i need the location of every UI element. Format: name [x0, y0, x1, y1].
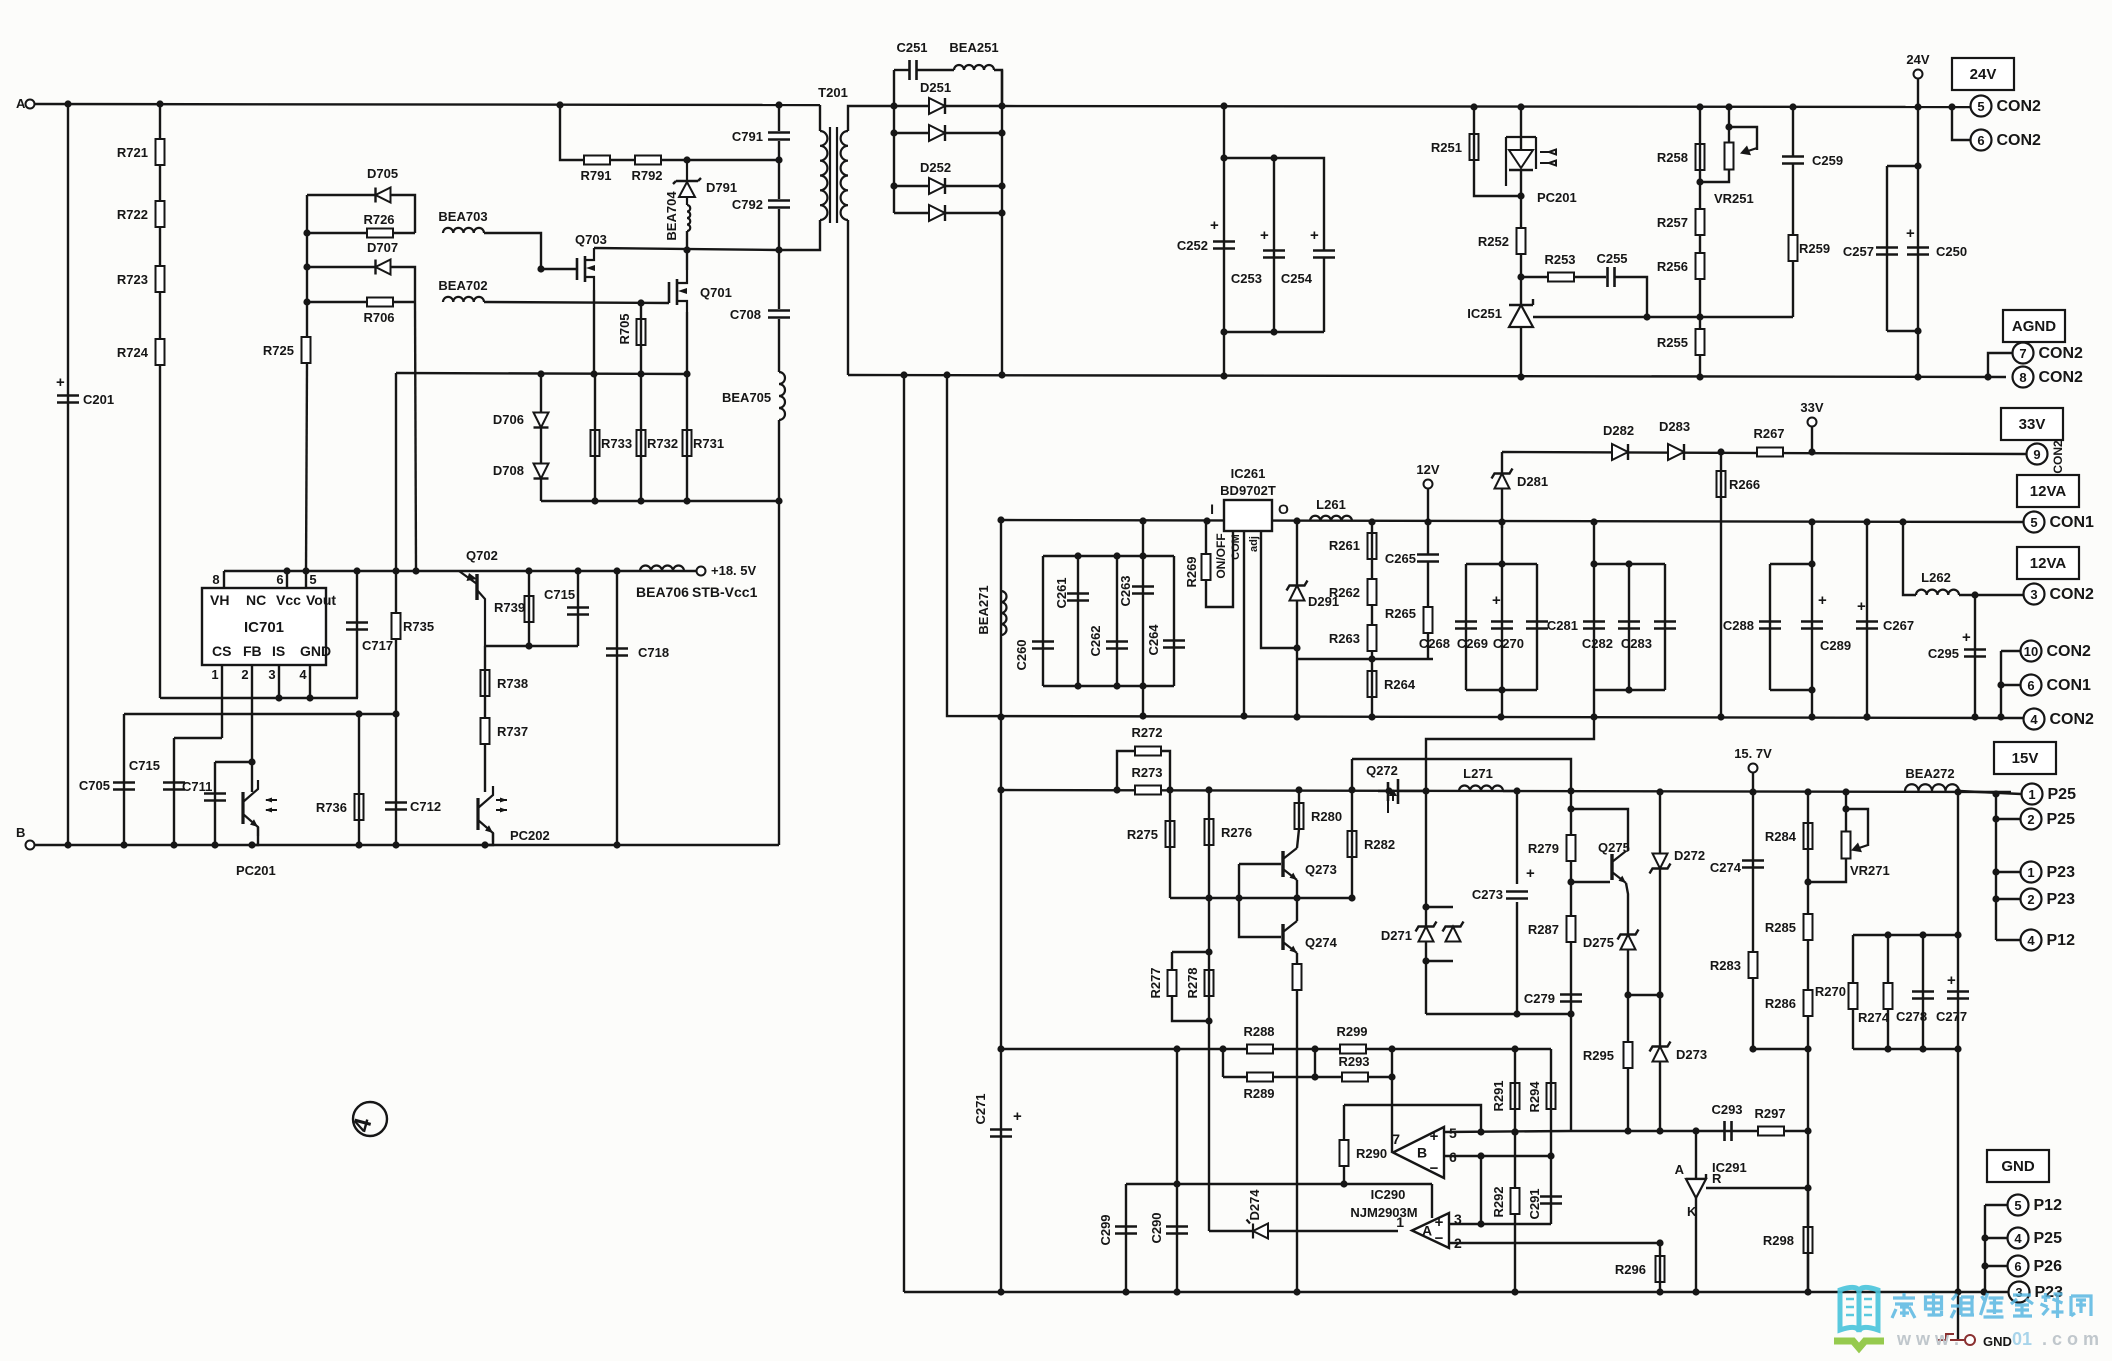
- svg-text:C718: C718: [638, 645, 669, 660]
- svg-text:R721: R721: [117, 145, 148, 160]
- wire CON1-6 stub: [2001, 684, 2020, 686]
- inductor L271: [1459, 786, 1503, 791]
- wire T201 primary bottom: [779, 220, 820, 250]
- svg-text:C717: C717: [362, 638, 393, 653]
- resistor R735: [392, 613, 401, 639]
- wire R733 vertical: [594, 374, 596, 501]
- wire COM pin: [1243, 531, 1245, 717]
- wire AGND rail: [848, 375, 2006, 377]
- wire R721 to 698: [160, 697, 162, 699]
- wire BEA703 to Q703 gate: [484, 233, 577, 269]
- wire R280 vertical: [1298, 790, 1300, 829]
- svg-text:A: A: [1422, 1223, 1432, 1239]
- wire PC202 emitter: [485, 833, 493, 845]
- resistor R251: [1470, 134, 1479, 160]
- svg-text:R297: R297: [1754, 1106, 1785, 1121]
- svg-text:6: 6: [2014, 1259, 2021, 1274]
- connector P26 pin6: [2008, 1256, 2029, 1277]
- junction dots D block left: [890, 102, 897, 109]
- capacitor C279: [1560, 995, 1582, 1002]
- diode D252 lower: [929, 205, 945, 221]
- wire D block right vertical: [1001, 70, 1003, 375]
- wire R270 vertical: [1852, 935, 1854, 1049]
- svg-text:C715: C715: [129, 758, 160, 773]
- wire pin5 loop: [1344, 1105, 1481, 1132]
- label box AGND: [2003, 310, 2065, 342]
- capacitor C299: [1115, 1227, 1137, 1234]
- capacitor C270: [1526, 622, 1548, 629]
- resistor R272: [1135, 747, 1161, 756]
- svg-text:R288: R288: [1243, 1024, 1274, 1039]
- svg-text:+: +: [1947, 972, 1956, 989]
- zener D271b: [1446, 927, 1461, 942]
- wire R706 line: [307, 301, 415, 303]
- diode D707: [376, 260, 391, 275]
- junction dots P25 branch: [1992, 815, 1999, 822]
- capacitor C264: [1163, 641, 1185, 648]
- svg-text:R723: R723: [117, 272, 148, 287]
- wire CON2-10 branch: [2001, 650, 2020, 652]
- svg-text:CON2: CON2: [1997, 132, 2042, 149]
- connector P12 pin4: [2021, 930, 2042, 951]
- wire P23-1 stub: [1996, 871, 2020, 873]
- inductor L261: [1310, 516, 1352, 521]
- svg-text:3: 3: [2015, 1285, 2022, 1300]
- wire D274 line: [1209, 1230, 1398, 1232]
- svg-text:ON/OFF: ON/OFF: [1214, 533, 1228, 578]
- connector CON2 pin5: [1971, 96, 1992, 117]
- wire C265 chain: [1427, 522, 1429, 554]
- wire P23-2 stub: [1996, 898, 2020, 900]
- svg-text:C271: C271: [973, 1093, 988, 1124]
- svg-text:R263: R263: [1329, 631, 1360, 646]
- svg-text:L262: L262: [1921, 570, 1951, 585]
- wire Q703 source: [593, 290, 595, 374]
- junction dots 659 line: [1368, 655, 1375, 662]
- wire pin6 line: [1444, 1155, 1551, 1157]
- svg-text:BEA705: BEA705: [722, 390, 771, 405]
- junction dot VR251 wiper tap: [1725, 123, 1732, 130]
- junction dot 646: [525, 642, 532, 649]
- wire R739 vertical: [528, 571, 530, 646]
- wire D271 vertical: [1425, 791, 1427, 1014]
- wire C255 corner: [1615, 277, 1647, 317]
- wire R263 line: [1297, 658, 1433, 660]
- connector P25 pin4: [2008, 1228, 2029, 1249]
- wire C257 bottom loop: [1887, 330, 1918, 332]
- svg-text:C290: C290: [1149, 1212, 1164, 1243]
- junction dot D791 top: [683, 156, 690, 163]
- svg-text:R299: R299: [1336, 1024, 1367, 1039]
- svg-text:T201: T201: [818, 85, 848, 100]
- wire CON2-6 branch: [1952, 107, 1970, 140]
- wire C715a vertical: [173, 738, 175, 845]
- wire R272 loop: [1117, 751, 1135, 790]
- connector P12 pin5: [2008, 1195, 2029, 1216]
- capacitor C715b: [567, 608, 589, 615]
- wire pin3 line: [1449, 1223, 1551, 1225]
- wire 24V rail: [1002, 106, 1970, 107]
- wire C259 chain: [1792, 107, 1794, 156]
- svg-text:C273: C273: [1472, 887, 1503, 902]
- svg-text:D273: D273: [1676, 1047, 1707, 1062]
- junction dots A rail: [64, 100, 71, 107]
- junction dot D275 bottom: [1624, 991, 1631, 998]
- wire R791 branch: [560, 105, 779, 160]
- diode D283: [1668, 444, 1684, 460]
- svg-text:3: 3: [268, 667, 275, 682]
- diode D252 upper: [929, 178, 945, 194]
- svg-text:P25: P25: [2047, 811, 2076, 828]
- svg-text:IS: IS: [272, 643, 285, 659]
- wire C261 vertical: [1077, 556, 1079, 686]
- wire C718 vertical: [616, 571, 618, 845]
- svg-text:33V: 33V: [2019, 416, 2046, 433]
- capacitor C201: [57, 396, 79, 403]
- wire 1184 corner: [1431, 1184, 1433, 1218]
- svg-text:R272: R272: [1131, 725, 1162, 740]
- wire BEA704 bottom: [686, 231, 688, 250]
- connector P23 pin2: [2021, 889, 2042, 910]
- svg-text:CON2: CON2: [2039, 369, 2084, 386]
- svg-text:VH: VH: [210, 592, 229, 608]
- svg-text:IC290: IC290: [1371, 1187, 1406, 1202]
- node page mark 4: [353, 1102, 387, 1136]
- capacitor C712: [385, 803, 407, 810]
- svg-text:CON1: CON1: [2050, 514, 2095, 531]
- wire C711 vertical: [214, 762, 216, 845]
- svg-text:GND: GND: [2001, 1158, 2035, 1175]
- junction dots d-cluster: [303, 229, 310, 236]
- svg-text:R277: R277: [1148, 967, 1163, 998]
- wire R721 chain: [159, 104, 161, 698]
- wire D707 line: [307, 267, 415, 302]
- resistor R257: [1696, 209, 1705, 235]
- wire pin8 stub: [223, 571, 225, 588]
- transistor Q703: [577, 256, 585, 282]
- capacitor C717: [346, 623, 368, 630]
- wire pin6 stub: [286, 571, 288, 588]
- wire 12V stub: [1427, 488, 1429, 522]
- svg-text:C293: C293: [1711, 1102, 1742, 1117]
- wire R261 chain: [1371, 522, 1373, 659]
- svg-text:12VA: 12VA: [2030, 555, 2067, 572]
- resistor R723: [156, 266, 165, 292]
- junction dots pin5 line: [1477, 1128, 1484, 1135]
- svg-text:R722: R722: [117, 207, 148, 222]
- wire VR271 wiper loop: [1846, 809, 1868, 846]
- capacitor C254: [1313, 251, 1335, 258]
- svg-text:BEA251: BEA251: [949, 40, 998, 55]
- svg-text:CON2: CON2: [1997, 98, 2042, 115]
- wire Q273 base: [1239, 863, 1281, 865]
- svg-text:1: 1: [2027, 865, 2034, 880]
- svg-text:PC201: PC201: [236, 863, 276, 878]
- wire block270 bottom: [1853, 1048, 1958, 1050]
- capacitor C293: [1725, 1121, 1732, 1141]
- watermark text: [1892, 1293, 1915, 1318]
- svg-text:4: 4: [2027, 933, 2035, 948]
- svg-text:D708: D708: [493, 463, 524, 478]
- svg-text:R252: R252: [1478, 234, 1509, 249]
- svg-text:4: 4: [2014, 1231, 2022, 1246]
- wire C267 vertical: [1866, 522, 1868, 717]
- svg-text:D275: D275: [1583, 935, 1614, 950]
- svg-text:R276: R276: [1221, 825, 1252, 840]
- svg-text:BEA706: BEA706: [636, 584, 689, 600]
- svg-text:R733: R733: [601, 436, 632, 451]
- svg-text:12VA: 12VA: [2030, 483, 2067, 500]
- wire pin6 to pin3: [1480, 1156, 1482, 1224]
- svg-text:D271: D271: [1381, 928, 1412, 943]
- inductor BEA272: [1905, 784, 1959, 791]
- wire BEA271 vertical: [1000, 520, 1002, 790]
- wire R731 vertical: [686, 374, 688, 501]
- junction dot C267 bottom: [1863, 713, 1870, 720]
- svg-text:R290: R290: [1356, 1146, 1387, 1161]
- svg-text:C259: C259: [1812, 153, 1843, 168]
- wire 1014 line: [1426, 1013, 1571, 1015]
- wire vcc line: [224, 570, 697, 572]
- junction dots C250: [1914, 162, 1921, 169]
- wire pin3 stub: [278, 665, 280, 698]
- svg-text:GND: GND: [300, 643, 331, 659]
- resistor R291: [1511, 1083, 1520, 1109]
- svg-text:+: +: [1210, 217, 1219, 234]
- wire C254 lower: [1323, 258, 1325, 332]
- resistor R265: [1424, 607, 1433, 633]
- svg-text:R736: R736: [316, 800, 347, 815]
- wire R277 top v: [1171, 952, 1173, 970]
- wire C278 vertical: [1922, 935, 1924, 1049]
- svg-text:Vout: Vout: [306, 592, 336, 608]
- wire pin5b line: [1571, 1130, 1808, 1132]
- wire C257 loop: [1887, 165, 1918, 167]
- inductor BEA251: [954, 65, 994, 70]
- wire R282 vertical: [1351, 759, 1353, 898]
- svg-text:R266: R266: [1729, 477, 1760, 492]
- wire C269 vertical: [1501, 522, 1503, 717]
- wire Q701 drain: [686, 250, 688, 270]
- svg-text:+: +: [1526, 865, 1535, 882]
- wire R272 loop right: [1161, 751, 1170, 790]
- junction dots 1131 line: [1624, 1127, 1631, 1134]
- svg-text:+: +: [1310, 227, 1319, 244]
- wire c281 bottom: [1594, 689, 1665, 691]
- wire IC251 anode: [1520, 327, 1522, 377]
- svg-text:R791: R791: [580, 168, 611, 183]
- svg-text:R298: R298: [1763, 1233, 1794, 1248]
- wire R738 chain: [484, 646, 486, 792]
- resistor R725: [302, 337, 311, 363]
- junction dots bottom rail: [997, 1288, 1004, 1295]
- wire gate bias line: [1352, 759, 1571, 791]
- wire mid 374 line: [396, 373, 687, 374]
- svg-text:NC: NC: [246, 592, 266, 608]
- svg-text:C278: C278: [1896, 1009, 1927, 1024]
- resistor R731: [683, 430, 692, 456]
- resistor R287: [1567, 916, 1576, 942]
- svg-text:C281: C281: [1547, 618, 1578, 633]
- wire CON2-7 branch: [1988, 353, 2012, 377]
- junction dots 374 line: [537, 370, 544, 377]
- wire pin2 line: [1449, 1242, 1660, 1244]
- wire C708 chain: [778, 250, 780, 309]
- svg-text:R284: R284: [1765, 829, 1797, 844]
- svg-text:PC201: PC201: [1537, 190, 1577, 205]
- svg-text:C295: C295: [1928, 646, 1959, 661]
- wire R277 loop top: [1172, 951, 1209, 953]
- wire C271 chain: [1000, 790, 1002, 1292]
- junction dots IC251 line: [1643, 313, 1650, 320]
- junction dot pin2 R296: [1656, 1239, 1663, 1246]
- svg-text:−: −: [1430, 1160, 1439, 1177]
- svg-text:FB: FB: [243, 643, 262, 659]
- capacitor C283: [1654, 622, 1676, 629]
- label box 15V: [1994, 742, 2056, 774]
- svg-text:A: A: [16, 96, 26, 111]
- wire Q275 collector loop: [1571, 809, 1628, 851]
- resistor R705: [637, 319, 646, 345]
- junction dots block270 bottom: [1884, 1045, 1891, 1052]
- resistor R706: [367, 298, 393, 307]
- capacitor C267: [1856, 622, 1878, 629]
- svg-text:8: 8: [212, 572, 219, 587]
- svg-text:C262: C262: [1088, 625, 1103, 656]
- wire C282 vertical: [1628, 564, 1630, 690]
- junction dot con1-6: [1997, 681, 2004, 688]
- junction dot primary bottom node: [683, 246, 690, 253]
- junction dot c282 top: [1625, 560, 1632, 567]
- wire R294 corner: [1550, 1049, 1552, 1070]
- svg-text:w w w .: w w w .: [1896, 1329, 1959, 1349]
- resistor R299: [1340, 1045, 1366, 1054]
- svg-text:D791: D791: [706, 180, 737, 195]
- wire c288 loop top: [1770, 563, 1812, 565]
- wire C791 chain: [778, 105, 780, 131]
- svg-text:R264: R264: [1384, 677, 1416, 692]
- svg-text:C261: C261: [1054, 577, 1069, 608]
- wire D271 pair bottom: [1426, 960, 1453, 962]
- junction dot c253 top: [1270, 154, 1277, 161]
- svg-text:R265: R265: [1385, 606, 1416, 621]
- op-amp A: [1412, 1213, 1449, 1248]
- wire C259 to R259: [1792, 164, 1794, 317]
- wire adj pin: [1261, 531, 1297, 648]
- resistor R297: [1758, 1127, 1784, 1136]
- wire P25-4 stub: [1985, 1237, 2007, 1239]
- svg-text:R269: R269: [1184, 556, 1199, 587]
- svg-text:R726: R726: [363, 212, 394, 227]
- inductor BEA706: [640, 566, 684, 572]
- transistor Q272 mosfet: [1378, 779, 1426, 804]
- svg-text:NJM2903M: NJM2903M: [1350, 1205, 1417, 1220]
- resistor R739: [525, 596, 534, 622]
- wire R252 to IC251: [1520, 254, 1522, 305]
- capacitor C255: [1608, 267, 1615, 287]
- junction dot R253 node: [1517, 273, 1524, 280]
- wire VR271 top: [1845, 792, 1847, 832]
- wire aux vcc feed: [415, 302, 416, 571]
- opto PC202: [476, 798, 479, 830]
- svg-text:C291: C291: [1527, 1188, 1542, 1219]
- inductor T201 secondary: [841, 131, 848, 220]
- svg-text:5: 5: [2030, 515, 2037, 530]
- svg-text:R257: R257: [1657, 215, 1688, 230]
- wire c268 top: [1466, 563, 1537, 565]
- diode D251 lower: [929, 125, 945, 141]
- svg-text:C251: C251: [896, 40, 927, 55]
- svg-text:C257: C257: [1843, 244, 1874, 259]
- transistor Q701: [669, 279, 677, 305]
- svg-text:+: +: [1013, 1108, 1022, 1125]
- wire R266 vertical: [1720, 452, 1722, 717]
- svg-text:C265: C265: [1385, 551, 1416, 566]
- svg-text:R255: R255: [1657, 335, 1688, 350]
- svg-text:A: A: [1675, 1162, 1685, 1177]
- wire bottom rail: [904, 1291, 1985, 1293]
- wire C791 C792: [778, 141, 780, 199]
- junction dot VR271 tap: [1842, 805, 1849, 812]
- junction dots CON2-4 rail: [997, 713, 1004, 720]
- resistor R259: [1789, 235, 1798, 261]
- inductor BEA705: [779, 372, 785, 420]
- wire D291 vertical: [1296, 521, 1298, 717]
- connector CON1 pin6: [2021, 675, 2042, 696]
- wire C283 vertical: [1664, 564, 1666, 690]
- node +18.5V terminal: [697, 567, 706, 576]
- wire 33V stub: [1811, 426, 1813, 452]
- junction dots 1184 line: [1173, 1180, 1180, 1187]
- wire P25 rail: [1959, 791, 2021, 794]
- wire C252 vertical: [1223, 106, 1225, 375]
- capacitor C288: [1759, 622, 1781, 629]
- resistor R261: [1368, 533, 1377, 559]
- capacitor C265: [1417, 555, 1439, 562]
- wire C715b vertical: [577, 571, 579, 646]
- junction dot c269 top: [1498, 560, 1505, 567]
- svg-text:+: +: [1962, 629, 1971, 646]
- wire c25x bottom bridge: [1224, 331, 1324, 333]
- svg-text:CON2: CON2: [2047, 643, 2092, 660]
- wire C257 vertical: [1886, 166, 1888, 331]
- wire pin1 stub: [221, 665, 223, 738]
- wire R289 left v: [1222, 1049, 1224, 1077]
- svg-text:C274: C274: [1710, 860, 1742, 875]
- capacitor C705: [113, 783, 135, 790]
- svg-text:8: 8: [2019, 370, 2026, 385]
- wire R736 vertical: [358, 714, 360, 845]
- svg-text:BD9702T: BD9702T: [1220, 483, 1276, 498]
- resistor R288: [1247, 1045, 1273, 1054]
- wire R290 bottom: [1343, 1166, 1345, 1184]
- svg-text:R273: R273: [1131, 765, 1162, 780]
- svg-text:C255: C255: [1596, 251, 1627, 266]
- wire PC201 emitter: [252, 827, 258, 845]
- svg-text:IC701: IC701: [244, 619, 284, 636]
- svg-text:1: 1: [211, 667, 218, 682]
- capacitor C273: [1506, 892, 1528, 899]
- svg-text:R292: R292: [1491, 1186, 1506, 1217]
- svg-text:C288: C288: [1723, 618, 1754, 633]
- svg-text:R731: R731: [693, 436, 724, 451]
- svg-text:P26: P26: [2034, 1258, 2063, 1275]
- svg-text:R289: R289: [1243, 1086, 1274, 1101]
- svg-text:L271: L271: [1463, 766, 1493, 781]
- wire R732 vertical: [640, 374, 642, 501]
- svg-text:R267: R267: [1753, 426, 1784, 441]
- wire LED to R252: [1520, 170, 1522, 229]
